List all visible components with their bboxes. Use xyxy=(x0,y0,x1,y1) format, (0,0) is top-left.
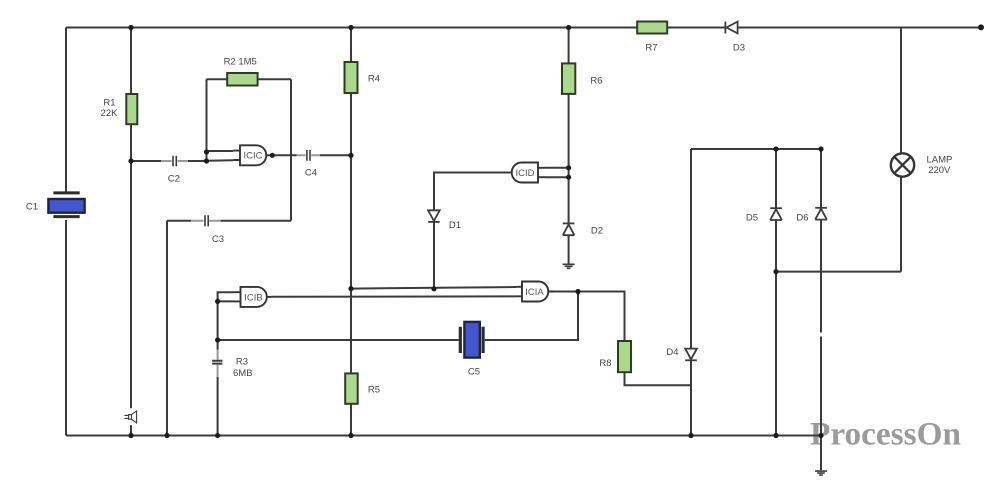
wire left vertical xyxy=(65,28,67,436)
svg-text:D2: D2 xyxy=(591,225,603,236)
node junction: R4 column / ICIA input 1 line xyxy=(348,286,353,291)
ground under D2 xyxy=(563,264,575,268)
wire C3 leads xyxy=(191,220,221,222)
node junction: box top line / D6 column xyxy=(818,146,823,151)
wire ICIB input wiring xyxy=(218,292,234,301)
svg-text:6MB: 6MB xyxy=(233,368,253,379)
node junction: top rail / R1 column xyxy=(128,25,133,30)
node junction: box top line / D5 column xyxy=(773,146,778,151)
node junction: R1 bottom / C2 line xyxy=(128,158,133,163)
logic gate ICID (mirrored) xyxy=(504,163,545,183)
wire ICIA input1 line xyxy=(351,287,517,289)
wire R2 loop xyxy=(207,79,292,221)
wire box top line xyxy=(691,148,821,150)
node junction: bottom rail / R1 column xyxy=(128,433,133,438)
svg-text:ICIB: ICIB xyxy=(244,292,262,303)
diode D1 xyxy=(428,210,461,231)
svg-text:ICID: ICID xyxy=(516,168,535,179)
wire ICIB output to ICIA input2 xyxy=(271,295,517,297)
resistor R5 xyxy=(345,373,380,403)
resistor R4 xyxy=(345,62,381,93)
node endpoint: top rail right end xyxy=(978,24,984,30)
wire ICIA output xyxy=(547,292,625,342)
svg-text:R2 1M5: R2 1M5 xyxy=(224,57,257,68)
svg-text:R4: R4 xyxy=(368,73,380,84)
logic gate ICIB xyxy=(234,287,272,307)
diode D4 xyxy=(666,347,696,360)
wire R3 column xyxy=(217,301,219,435)
wire R8 bottom to D4 column xyxy=(625,372,692,385)
logic gate ICIA xyxy=(517,282,581,302)
capacitor C2 xyxy=(168,156,180,185)
node junction: ICID input 2 / R6 column xyxy=(566,175,571,180)
svg-text:C3: C3 xyxy=(212,234,224,245)
wire R4 R5 column xyxy=(350,28,352,436)
wire C4 leads xyxy=(297,154,321,156)
wire R3 leads xyxy=(217,350,219,378)
wire D5 column xyxy=(775,149,777,436)
wire D6 column xyxy=(820,149,822,470)
node junction: bottom rail / R3 column xyxy=(215,433,220,438)
node junction: bottom rail / D4 column xyxy=(688,433,693,438)
node junction: bottom rail / C3 column xyxy=(164,433,169,438)
speaker xyxy=(124,411,136,423)
svg-text:ICIC: ICIC xyxy=(244,151,263,162)
svg-text:R5: R5 xyxy=(368,385,380,396)
svg-text:D3: D3 xyxy=(733,43,745,54)
resistor R7 xyxy=(637,22,667,54)
svg-text:R6: R6 xyxy=(590,75,602,86)
node junction: bottom rail / R5 column xyxy=(348,433,353,438)
svg-text:C4: C4 xyxy=(305,168,317,179)
wire ICID output to D1 xyxy=(434,173,504,289)
capacitor C1 xyxy=(26,193,85,217)
node junction: top rail / R4 column xyxy=(348,25,353,30)
node junction: ICID input 1 / R6 column xyxy=(566,165,571,170)
svg-text:D1: D1 xyxy=(449,220,461,231)
wire R6 column xyxy=(568,28,570,264)
wire ICIC input wires xyxy=(207,79,234,161)
wire ICIC output to C4 to R4 column xyxy=(272,154,351,156)
capacitor R3 6MB xyxy=(212,356,252,379)
wire C5 line xyxy=(218,292,578,341)
svg-text:22K: 22K xyxy=(101,108,119,119)
resistor R6 xyxy=(562,63,603,94)
svg-text:ProcessOn: ProcessOn xyxy=(810,417,961,453)
wire lamp bottom line xyxy=(776,177,901,272)
node junction: bottom rail / D6 column xyxy=(818,433,823,438)
wire C2 line xyxy=(131,160,207,162)
node junction: top rail / R6 column xyxy=(566,25,571,30)
wire C3 line xyxy=(167,221,291,436)
crystal C5 xyxy=(460,322,483,378)
svg-text:R1: R1 xyxy=(103,97,115,108)
svg-text:C5: C5 xyxy=(468,366,480,377)
wire C2 leads xyxy=(161,160,188,162)
capacitor C4 xyxy=(305,150,317,179)
node junction: bottom rail / D5 column xyxy=(773,433,778,438)
diode D5 xyxy=(746,208,782,223)
wire bottom rail xyxy=(66,435,821,437)
wire top rail xyxy=(66,27,981,29)
svg-text:R8: R8 xyxy=(599,358,611,369)
wire D4 column xyxy=(690,149,692,436)
capacitor C3 xyxy=(205,215,224,245)
lamp xyxy=(891,153,953,176)
node junction: R2 left column / ICIC input 2 xyxy=(204,158,209,163)
node junction: R2 left column / ICIC input 1 xyxy=(204,149,209,154)
resistor R2 xyxy=(224,57,258,86)
diode D3 xyxy=(725,22,745,54)
svg-text:C2: C2 xyxy=(168,173,180,184)
node junction: D5 column / lamp bottom line xyxy=(773,269,778,274)
resistor R1 xyxy=(101,94,138,124)
diode D6 xyxy=(796,208,826,224)
wire R1 column xyxy=(130,28,132,436)
ground under D6 xyxy=(815,471,827,475)
wire lamp top column xyxy=(900,28,902,154)
node junction: D1 column / ICIA input 1 line xyxy=(431,286,436,291)
svg-text:R3: R3 xyxy=(236,356,248,367)
logic gate ICIC xyxy=(233,145,275,165)
resistor R8 xyxy=(599,341,631,372)
svg-text:R7: R7 xyxy=(645,43,657,54)
wire ICID inputs to R6 column xyxy=(545,168,569,177)
svg-text:D4: D4 xyxy=(666,347,678,358)
svg-text:C1: C1 xyxy=(26,202,38,213)
svg-text:220V: 220V xyxy=(928,165,951,176)
node junction: C4 line / R4 column xyxy=(348,153,353,158)
node junction: ICIB inputs xyxy=(215,299,220,304)
node junction: R3 column / C5 line xyxy=(215,337,220,342)
svg-text:D6: D6 xyxy=(796,212,808,223)
svg-text:ICIA: ICIA xyxy=(525,287,544,298)
svg-text:D5: D5 xyxy=(746,212,758,223)
diode D2 xyxy=(563,223,603,236)
